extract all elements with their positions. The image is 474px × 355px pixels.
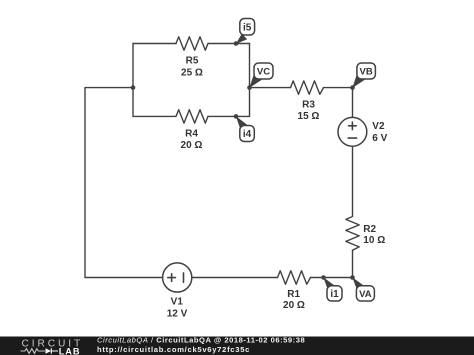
resistor R1: [278, 271, 311, 284]
logo diode glyph: [46, 348, 52, 354]
svg-text:10 Ω: 10 Ω: [363, 235, 385, 246]
net flag box VB: [357, 63, 376, 79]
resistor R4: [176, 110, 208, 123]
V2 plus sign: [349, 122, 357, 130]
resistor R3: [291, 81, 324, 94]
node VA junction: [350, 275, 355, 280]
probe flag box i1: [327, 286, 342, 301]
pointer wedge VC: [249, 73, 261, 88]
svg-text:V1: V1: [171, 297, 184, 308]
wire V1 to R1: [192, 277, 278, 279]
svg-text:VC: VC: [257, 67, 270, 78]
wire middle-left stub: [85, 88, 163, 278]
svg-text:i1: i1: [330, 289, 339, 300]
wire VB down to V2: [352, 88, 354, 118]
V1 plus sign: [168, 274, 176, 282]
svg-text:15 Ω: 15 Ω: [298, 111, 320, 122]
resistor R2: [346, 217, 359, 251]
svg-text:VB: VB: [359, 67, 372, 78]
voltage source V1 circle: [163, 263, 192, 292]
footer bar: [0, 337, 474, 355]
svg-text:CircuitLabQA / CircuitLabQA @: CircuitLabQA / CircuitLabQA @ 2018-11-02…: [97, 336, 305, 345]
voltage source V2 circle: [338, 117, 367, 146]
svg-text:V2: V2: [372, 121, 385, 132]
pointer wedge i4: [236, 116, 248, 128]
wire bottom right of loop: [208, 115, 250, 117]
svg-text:25 Ω: 25 Ω: [181, 67, 203, 78]
V1 minus bar: [183, 273, 185, 282]
pointer wedge VA: [352, 277, 364, 288]
svg-text:VA: VA: [359, 289, 372, 300]
wire V2 to R2: [352, 146, 354, 216]
svg-text:R4: R4: [185, 129, 198, 140]
pointer wedge VB: [352, 73, 365, 88]
svg-text:R2: R2: [363, 224, 376, 235]
pointer wedge i1: [323, 277, 335, 288]
net flag box VC: [254, 63, 273, 79]
svg-text:R3: R3: [302, 99, 315, 110]
svg-text:LAB: LAB: [59, 347, 81, 355]
wire loop right edge: [249, 44, 251, 117]
node i5 junction: [234, 41, 239, 46]
wire VC to R3: [250, 87, 291, 89]
net flag box VA: [356, 286, 374, 301]
logo resistor glyph: [21, 349, 46, 354]
svg-text:6 V: 6 V: [372, 133, 387, 144]
node i4 junction: [234, 114, 239, 119]
node i1 junction: [321, 275, 326, 280]
svg-text:i4: i4: [243, 129, 252, 140]
svg-text:R1: R1: [287, 289, 300, 300]
node VC junction: [247, 85, 252, 90]
node VB junction: [350, 85, 355, 90]
svg-text:i5: i5: [243, 23, 252, 34]
wire bottom-left of loop: [133, 115, 176, 117]
wire R3 to VB node: [324, 87, 353, 89]
wire loop left edge: [132, 44, 134, 117]
svg-text:20 Ω: 20 Ω: [181, 140, 203, 151]
V2 minus sign: [348, 137, 356, 139]
wire R1 to VA node: [311, 277, 353, 279]
wire top right of R5: [208, 43, 250, 45]
probe flag box i4: [240, 126, 255, 142]
svg-text:R5: R5: [186, 56, 199, 67]
svg-text:20 Ω: 20 Ω: [283, 300, 305, 311]
wire R2 to VA node: [352, 250, 354, 277]
svg-text:http://circuitlab.com/ck5v6y72: http://circuitlab.com/ck5v6y72fc35c: [97, 345, 250, 354]
pointer wedge i5: [236, 34, 247, 44]
resistor R5: [176, 37, 208, 50]
wire top-left loop top: [133, 43, 176, 45]
svg-text:12 V: 12 V: [167, 309, 188, 320]
probe flag box i5: [240, 19, 255, 36]
node junction left: [131, 85, 136, 90]
